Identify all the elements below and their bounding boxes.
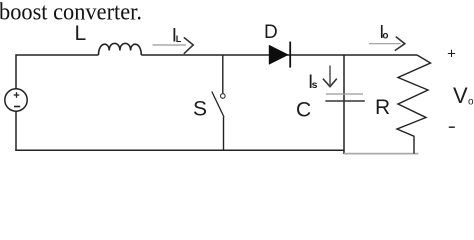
wire bottom-right gray from capacitor to resistor [344, 153, 418, 155]
current arrow IL [153, 37, 194, 53]
label IL [172, 26, 182, 47]
diode D [269, 42, 290, 68]
svg-text:S: S [193, 97, 207, 120]
svg-text:L: L [75, 22, 87, 45]
label Vo [453, 83, 474, 108]
svg-text:+: + [447, 46, 456, 63]
svg-text:s: s [312, 79, 318, 91]
label Io [379, 22, 388, 42]
wire bottom from left rail to capacitor [15, 149, 344, 151]
voltage source Vs [5, 89, 27, 111]
resistor R [397, 55, 431, 154]
svg-text:R: R [375, 96, 390, 119]
svg-text:C: C [296, 99, 311, 122]
wire top-left from source to inductor [16, 55, 99, 89]
switch S [212, 55, 225, 151]
wire top-middle from inductor to resistor corner [141, 54, 417, 56]
svg-text:boost converter.: boost converter. [0, 0, 142, 26]
svg-text:o: o [468, 97, 474, 108]
svg-text:V: V [453, 83, 468, 108]
svg-text:D: D [264, 22, 278, 43]
current arrow Io [369, 37, 405, 51]
wire left rail lower from source to bottom [15, 111, 17, 150]
current arrow Is [323, 66, 337, 87]
label minus output [449, 126, 455, 128]
label Is [308, 72, 318, 93]
inductor L [99, 43, 142, 55]
svg-text:o: o [382, 30, 388, 41]
capacitor C [325, 55, 364, 154]
svg-text:L: L [176, 34, 182, 44]
